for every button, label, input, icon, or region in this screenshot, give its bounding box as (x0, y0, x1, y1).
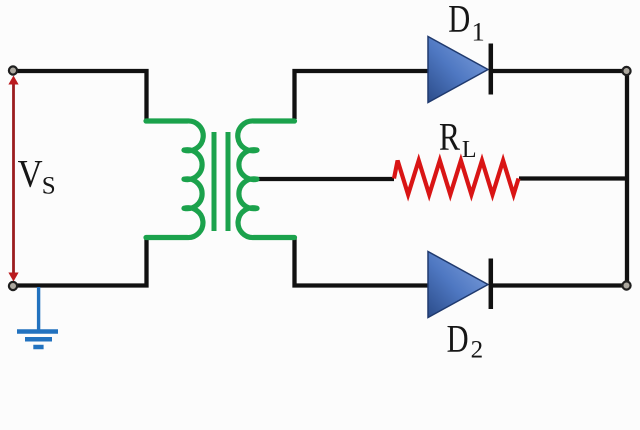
svg-text:1: 1 (472, 16, 485, 46)
wire right vertical rail (625, 71, 629, 286)
svg-text:R: R (439, 115, 461, 159)
wire D1 cathode to right rail (491, 69, 627, 73)
node terminal top-right (622, 67, 630, 75)
label D2 (447, 316, 484, 363)
svg-text:D: D (448, 0, 470, 40)
wire center tap to R_L (256, 177, 394, 181)
label D1 (448, 0, 485, 46)
svg-text:D: D (447, 316, 469, 360)
transformer core line left (212, 132, 217, 231)
diode D1 triangle (428, 37, 488, 103)
wire top-left from V_S top terminal to primary (13, 71, 147, 119)
resistor R_L zigzag (394, 161, 519, 195)
wire primary bottom to bottom-left rail (13, 238, 147, 286)
diode D2 triangle (428, 252, 488, 318)
node terminal bottom-left (9, 282, 17, 290)
svg-text:V: V (18, 152, 43, 196)
node terminal bottom-right (622, 281, 630, 289)
wire secondary top to D1 anode (295, 71, 431, 119)
transformer T1 secondary winding with center tap (238, 121, 295, 238)
diode D2 cathode bar (489, 259, 494, 310)
transformer T1 primary winding (146, 121, 203, 238)
label Vs (18, 152, 56, 200)
svg-text:2: 2 (471, 336, 484, 363)
wire R_L to right rail (519, 176, 627, 180)
ground (17, 287, 58, 347)
node terminal top-left (9, 66, 17, 74)
wire secondary bottom to D2 anode (295, 238, 431, 286)
Vs measurement arrow (8, 76, 18, 282)
diode D1 cathode bar (489, 44, 494, 95)
wire D2 cathode to right rail (491, 283, 627, 287)
svg-text:L: L (462, 137, 477, 163)
svg-text:S: S (42, 173, 56, 200)
label RL (439, 115, 477, 163)
transformer core line right (226, 132, 231, 231)
